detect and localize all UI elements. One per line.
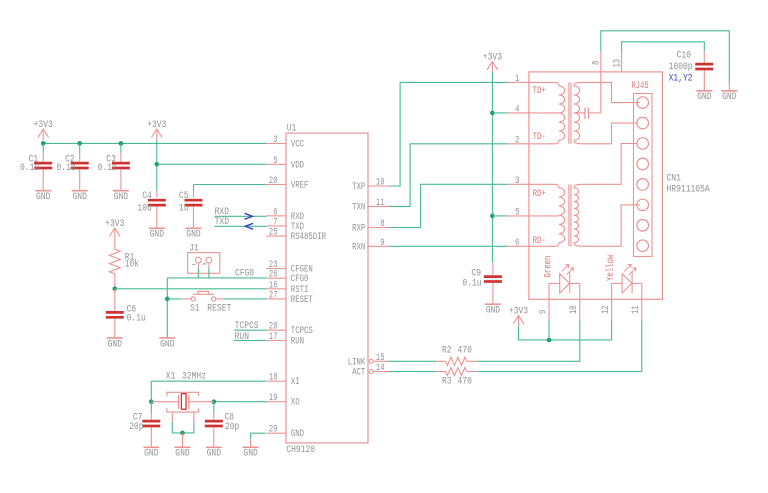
pin 3 VCC (U1 left) xyxy=(266,134,304,151)
wire S1 left xyxy=(167,298,181,300)
connector CN1 HR911105A body xyxy=(529,72,710,299)
wire CN1 pin4 xyxy=(492,112,507,114)
pin 5 VDD (U1 left) xyxy=(266,155,304,172)
wire TD sec top to hole1 xyxy=(582,82,640,102)
node junction C1/+3V3 xyxy=(41,141,46,146)
svg-text:25: 25 xyxy=(269,227,278,239)
wire J1 pin A drop xyxy=(197,268,199,278)
capacitor C3 0.1u xyxy=(98,143,130,190)
ground C2 xyxy=(72,191,88,203)
pin 11 (CN1 bottom) xyxy=(630,299,642,320)
svg-text:GND: GND xyxy=(150,229,164,241)
pin 10 TXP (U1 right) xyxy=(352,177,389,194)
wire XI xyxy=(151,381,266,402)
svg-text:GND: GND xyxy=(243,448,257,460)
svg-text:0.1u: 0.1u xyxy=(57,162,76,174)
svg-text:GND: GND xyxy=(291,428,304,440)
svg-text:10: 10 xyxy=(376,177,385,189)
svg-text:0.1u: 0.1u xyxy=(20,162,39,174)
wire R2 to pin10 xyxy=(477,320,580,361)
svg-text:GND: GND xyxy=(114,191,128,203)
ground C7 xyxy=(143,447,159,459)
pin 5 (CN1 left) xyxy=(508,206,529,218)
svg-text:HR911105A: HR911105A xyxy=(667,183,711,195)
wire RXN to CN1 pin6 xyxy=(389,245,508,247)
capacitor C7 20p xyxy=(129,402,160,448)
ground C6 xyxy=(107,338,123,350)
svg-text:10: 10 xyxy=(568,305,580,314)
label TCPCS xyxy=(235,320,259,332)
wire +3V3 rail vertical xyxy=(491,72,493,263)
svg-text:GND: GND xyxy=(186,229,200,241)
svg-text:S1: S1 xyxy=(190,302,200,314)
svg-text:470: 470 xyxy=(458,375,472,387)
pin 10 (CN1 bottom) xyxy=(568,299,580,320)
label RD+ xyxy=(533,188,546,200)
svg-text:VDD: VDD xyxy=(291,159,304,171)
svg-text:9: 9 xyxy=(537,310,549,314)
transformer RD primary xyxy=(529,184,565,246)
LED Yellow xyxy=(605,254,642,299)
svg-text:RXP: RXP xyxy=(352,223,365,235)
svg-text:R3: R3 xyxy=(442,375,452,387)
node junction X1 left xyxy=(149,399,154,404)
pin 1 (CN1 left) xyxy=(508,73,529,85)
transformer TD secondary xyxy=(574,82,582,143)
transformer TD primary xyxy=(529,82,565,143)
svg-text:5: 5 xyxy=(273,155,277,167)
svg-text:XO: XO xyxy=(291,397,300,409)
svg-text:9: 9 xyxy=(380,237,384,249)
pin 28 TCPCS (U1 left) xyxy=(266,321,312,338)
svg-text:RUN: RUN xyxy=(235,331,249,343)
wire XO xyxy=(214,401,267,403)
svg-text:RJ45: RJ45 xyxy=(632,80,649,92)
svg-text:GND: GND xyxy=(175,448,189,460)
wire GND pin29 lead xyxy=(250,439,252,447)
svg-text:GND: GND xyxy=(486,305,500,317)
crystal case ground pins xyxy=(167,392,199,422)
svg-text:6: 6 xyxy=(515,237,519,249)
svg-text:RESET: RESET xyxy=(291,294,313,306)
svg-text:2: 2 xyxy=(515,134,519,146)
wire pin8 to GND xyxy=(601,31,730,84)
ground C9 xyxy=(485,304,501,316)
ground C5 xyxy=(186,228,202,240)
pin 9 (CN1 bottom) xyxy=(537,299,549,320)
pin 20 VREF (U1 left) xyxy=(266,175,308,192)
svg-text:17: 17 xyxy=(269,331,278,343)
resistor R3 470 xyxy=(436,368,477,388)
node junction X1 right xyxy=(212,399,217,404)
wire TD sec bottom to hole2 xyxy=(582,123,637,144)
label RUN xyxy=(235,331,249,343)
transformer RD secondary xyxy=(574,184,582,246)
wire crystal case xyxy=(172,422,194,433)
pin 8 (CN1 top) xyxy=(591,52,603,113)
pin 3 (CN1 left) xyxy=(508,175,529,187)
svg-text:GND: GND xyxy=(144,448,158,460)
label TXD xyxy=(215,216,229,228)
svg-text:X1: X1 xyxy=(166,370,176,382)
pin 17 RUN (U1 left) xyxy=(266,331,304,348)
wire +3V3 to LED anodes xyxy=(519,320,612,340)
capacitor TD center tap xyxy=(574,107,601,118)
node junction C3 top xyxy=(119,141,124,146)
resistor R2 470 xyxy=(436,344,477,365)
pin 2 (CN1 left) xyxy=(508,134,529,146)
svg-text:RD-: RD- xyxy=(533,235,546,247)
svg-text:10u: 10u xyxy=(137,203,151,215)
capacitor C1 0.1u xyxy=(20,143,52,190)
wire RXD xyxy=(214,215,266,217)
label TD+ xyxy=(533,85,546,97)
ground S1/J1 xyxy=(159,338,175,350)
capacitor C6 0.1u xyxy=(106,289,146,338)
svg-text:1u: 1u xyxy=(179,203,189,215)
svg-text:VREF: VREF xyxy=(291,180,309,192)
svg-text:1: 1 xyxy=(515,73,519,85)
wire TCPCS xyxy=(234,329,266,331)
svg-text:R2: R2 xyxy=(442,344,452,356)
pin 8 RXP (U1 right) xyxy=(352,218,389,235)
label TD- xyxy=(533,131,546,143)
capacitor C9 0.1u xyxy=(462,263,502,304)
svg-text:0.1u: 0.1u xyxy=(462,278,481,290)
wire RUN xyxy=(234,340,266,342)
ground U1 pin29 xyxy=(243,447,259,459)
svg-text:TD+: TD+ xyxy=(533,85,546,97)
capacitor C5 1u xyxy=(179,185,203,229)
power +3V3 (LED anodes) xyxy=(509,305,528,326)
wire LINK to R2 xyxy=(388,360,436,362)
pin 13 (CN1 top) xyxy=(611,52,623,72)
label X1,Y2 (blue) xyxy=(669,72,693,84)
label RXD xyxy=(215,206,229,218)
capacitor C4 10u xyxy=(137,190,165,229)
svg-text:TXP: TXP xyxy=(352,181,365,193)
svg-text:10k: 10k xyxy=(125,259,139,271)
svg-text:13: 13 xyxy=(611,59,623,68)
wire pin9 up xyxy=(548,320,550,340)
power +3V3 (R1) xyxy=(105,218,124,239)
svg-text:RD+: RD+ xyxy=(533,188,546,200)
svg-text:J1: J1 xyxy=(189,242,199,254)
wire TXP to CN1 pin1 xyxy=(389,82,508,186)
svg-text:3: 3 xyxy=(515,175,519,187)
svg-text:27: 27 xyxy=(269,289,278,301)
svg-text:8: 8 xyxy=(591,61,603,65)
ground C8 xyxy=(206,447,222,459)
svg-text:GND: GND xyxy=(73,191,87,203)
svg-text:GND: GND xyxy=(108,338,122,350)
svg-text:3: 3 xyxy=(273,134,277,146)
wire RD sec bottom to hole6 xyxy=(582,205,640,246)
svg-text:12: 12 xyxy=(600,305,612,314)
ground pin8 net xyxy=(721,91,737,103)
pin 16 RSTI (U1 left) xyxy=(266,279,308,296)
wire +3V3 to VDD/C4 xyxy=(156,140,158,190)
svg-text:19: 19 xyxy=(269,392,278,404)
crystal X1 xyxy=(151,394,214,410)
pin 9 RXN (U1 right) xyxy=(352,237,389,254)
wire J1 pin B drop xyxy=(208,268,210,278)
transformer TD core xyxy=(569,82,571,143)
arrow TXD (blue) xyxy=(245,223,253,229)
wire S1 right to RESET xyxy=(223,298,266,300)
ground C1 xyxy=(35,191,51,203)
svg-text:CH9120: CH9120 xyxy=(286,444,315,456)
svg-text:RUN: RUN xyxy=(291,336,304,348)
pin 18 XI (U1 left) xyxy=(266,372,299,389)
svg-text:C5: C5 xyxy=(179,190,189,202)
switch S1 RESET xyxy=(181,291,231,314)
svg-text:ACT: ACT xyxy=(352,367,365,379)
svg-text:32MHz: 32MHz xyxy=(182,370,206,382)
pin 6 (CN1 left) xyxy=(508,237,529,249)
pin 12 (CN1 bottom) xyxy=(600,299,612,320)
svg-text:29: 29 xyxy=(269,424,278,436)
wire +3V3 rail to VCC xyxy=(43,142,266,144)
wire RD sec top to hole3 xyxy=(582,144,637,185)
svg-text:RXN: RXN xyxy=(352,241,365,253)
wire TXD xyxy=(214,225,266,227)
LED Green xyxy=(542,256,580,300)
svg-text:GND: GND xyxy=(36,191,50,203)
svg-text:11: 11 xyxy=(630,305,642,314)
connector RJ45 jack xyxy=(632,80,653,256)
svg-text:GND: GND xyxy=(160,338,174,350)
pin 11 TXN (U1 right) xyxy=(352,197,389,214)
svg-text:CFG0: CFG0 xyxy=(235,268,254,280)
wire case to GND xyxy=(182,433,184,447)
wire VREF xyxy=(194,184,267,186)
jumper J1 xyxy=(188,242,220,273)
power +3V3 (VDD rail) xyxy=(147,119,166,140)
capacitor C10 1000p xyxy=(669,50,714,91)
svg-text:RESET: RESET xyxy=(207,302,231,314)
svg-text:11: 11 xyxy=(376,197,385,209)
svg-text:TXN: TXN xyxy=(352,201,365,213)
wire RXP to CN1 pin3 xyxy=(389,184,508,227)
pin 29 GND (U1 left) xyxy=(266,424,304,441)
wire pin8 GND lead xyxy=(728,84,730,91)
pin 23 CFGEN (U1 left) xyxy=(266,259,312,276)
svg-text:GND: GND xyxy=(697,91,711,103)
svg-text:TXD: TXD xyxy=(215,216,229,228)
node junction R1/C6/RSTI xyxy=(113,287,118,292)
svg-text:X1,Y2: X1,Y2 xyxy=(669,72,693,84)
node junction crystal case xyxy=(180,431,185,436)
wire R3 to pin11 xyxy=(477,320,642,371)
ground C3 xyxy=(113,191,129,203)
svg-text:Yellow: Yellow xyxy=(605,254,617,281)
svg-text:0.1u: 0.1u xyxy=(127,312,146,324)
wire RSTI xyxy=(115,288,267,290)
svg-text:0.1u: 0.1u xyxy=(98,162,117,174)
node junction C2 top xyxy=(77,141,82,146)
svg-text:GND: GND xyxy=(207,448,221,460)
svg-text:20: 20 xyxy=(269,175,278,187)
arrow RXD (blue) xyxy=(245,213,253,219)
svg-text:1000p: 1000p xyxy=(669,61,693,73)
svg-text:Green: Green xyxy=(542,256,554,278)
svg-text:RS485DIR: RS485DIR xyxy=(291,231,326,243)
svg-text:XI: XI xyxy=(291,376,300,388)
label RD- xyxy=(533,235,546,247)
svg-text:470: 470 xyxy=(458,344,472,356)
node junction CN1 pin4 xyxy=(490,111,495,116)
ground C10 xyxy=(696,91,712,103)
svg-text:VCC: VCC xyxy=(291,139,304,151)
svg-text:14: 14 xyxy=(376,362,385,374)
svg-text:8: 8 xyxy=(380,218,384,230)
node junction VDD wire xyxy=(155,162,160,167)
node junction S1 left xyxy=(165,297,170,302)
wire pin13 to C10 xyxy=(622,42,705,52)
label X1 32MHz xyxy=(166,370,206,382)
pin 25 RS485DIR (U1 left) xyxy=(266,227,326,244)
wire ACT to R3 xyxy=(388,371,436,373)
svg-text:4: 4 xyxy=(515,103,519,115)
wire CFG0-left to GND xyxy=(166,278,168,338)
node junction pin9 xyxy=(547,338,552,343)
svg-text:18: 18 xyxy=(269,372,278,384)
svg-text:U1: U1 xyxy=(287,123,297,135)
svg-text:GND: GND xyxy=(722,91,736,103)
svg-text:TD-: TD- xyxy=(533,131,546,143)
svg-text:C4: C4 xyxy=(142,190,152,202)
capacitor C2 0.1u xyxy=(57,143,89,190)
resistor R1 10k xyxy=(109,239,139,289)
label CFG0 xyxy=(235,268,254,280)
pin 26 CFG0 (U1 left) xyxy=(266,269,308,286)
power +3V3 (CN1 center taps) xyxy=(483,51,502,72)
ground C4 xyxy=(149,228,165,240)
wire TXN to CN1 pin2 xyxy=(389,144,508,207)
pin 6 RXD (U1 left) xyxy=(266,206,304,223)
pin 19 XO (U1 left) xyxy=(266,392,299,409)
power +3V3 (C1 rail) xyxy=(34,119,53,140)
pin 7 TXD (U1 left) xyxy=(266,216,304,233)
pin 14 ACT (U1 right) xyxy=(352,362,389,379)
node junction CN1 pin5 xyxy=(490,214,495,219)
wire CN1 pin5 xyxy=(492,215,507,217)
transformer RD core xyxy=(569,184,571,246)
pin 27 RESET (U1 left) xyxy=(266,289,312,306)
pin 15 LINK (U1 right) xyxy=(348,352,389,369)
wire CFG0 xyxy=(167,277,266,279)
capacitor C8 20p xyxy=(205,402,239,448)
op-amp U1 CH9120 body xyxy=(286,123,368,456)
svg-text:5: 5 xyxy=(515,206,519,218)
ground X1 case xyxy=(175,447,191,459)
svg-text:20p: 20p xyxy=(129,421,143,433)
wire VDD xyxy=(157,163,267,165)
pin 4 (CN1 left) xyxy=(508,103,529,115)
wire GND pin29 xyxy=(251,433,266,439)
svg-text:20p: 20p xyxy=(225,421,239,433)
